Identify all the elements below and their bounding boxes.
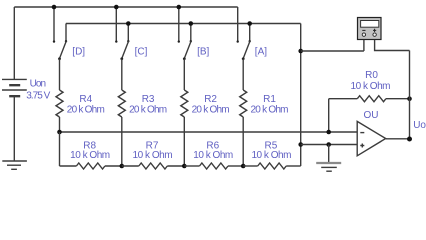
wire: switch [B] pole to R2 [183, 59, 185, 90]
node: inverting input / feedback junction [326, 130, 331, 135]
node: ladder node under R2 [182, 164, 187, 169]
svg-text:Uon: Uon [30, 79, 46, 90]
resistor R1 20 k Ohm (vertical) [240, 90, 247, 117]
resistor R4 20 k Ohm (vertical) [56, 90, 63, 117]
wire: switch [C] pole to R3 [121, 59, 123, 90]
switch [D] [53, 7, 67, 60]
wire: R1 bottom lead [242, 117, 244, 166]
svg-text:R2: R2 [204, 94, 217, 105]
node: ground rail tap for switch [B] [189, 21, 194, 26]
svg-text:R1: R1 [263, 94, 276, 105]
wire: Uon top rail [14, 6, 237, 8]
svg-text:20 k Ohm: 20 k Ohm [192, 105, 230, 116]
wire: switch [D] pole to R4 [59, 59, 61, 90]
svg-text:OU: OU [364, 110, 379, 121]
wire: meter positive lead [375, 36, 410, 51]
resistor R6 10 k Ohm (horizontal) [200, 163, 229, 169]
svg-text:R0: R0 [365, 70, 378, 81]
wire: bottom rail segment after R5 [286, 165, 301, 167]
wire: ground stem [328, 145, 330, 164]
switch [C] [115, 7, 129, 60]
node: ladder left junction (R4/R8) [57, 130, 62, 135]
wire: bottom rail segment after R6 [228, 165, 243, 167]
svg-text:10 k Ohm: 10 k Ohm [251, 150, 291, 161]
wire: bottom rail segment before R8 [60, 165, 77, 167]
svg-text:10 k Ohm: 10 k Ohm [351, 81, 391, 92]
wire: output column vertical [409, 51, 411, 140]
svg-text:3.75 V: 3.75 V [26, 91, 50, 102]
wire: bottom rail segment before R6 [184, 165, 199, 167]
svg-text:[C]: [C] [135, 47, 148, 58]
resistor R7 10 k Ohm (horizontal) [139, 163, 168, 169]
wire: bottom rail segment before R7 [122, 165, 139, 167]
node: feedback/output column at R0 right [407, 96, 412, 101]
node: meter branch junction [298, 49, 303, 54]
svg-text:R3: R3 [142, 94, 155, 105]
ground (op-amp non-inverting input) [316, 163, 341, 171]
wire: op-amp non-inverting input [301, 144, 358, 146]
node: ladder node under R3 [120, 164, 125, 169]
svg-text:20 k Ohm: 20 k Ohm [129, 105, 167, 116]
node: ladder node under R1 [241, 164, 246, 169]
wire: R4 bottom lead [59, 117, 61, 132]
svg-text:[A]: [A] [255, 47, 267, 58]
node Uo (output) [407, 137, 412, 142]
wire: left drop to bottom rail [59, 132, 61, 166]
wire: meter negative lead [301, 36, 364, 51]
resistor R8 10 k Ohm (horizontal) [76, 163, 105, 169]
svg-text:Uo: Uo [413, 120, 426, 131]
ground (battery) [2, 161, 27, 169]
svg-text:R4: R4 [79, 94, 92, 105]
node: top rail tap for switch [B] [177, 5, 182, 10]
battery Uon 3.75 V [2, 7, 27, 161]
svg-text:[D]: [D] [72, 47, 85, 58]
meter (voltmeter) [358, 18, 382, 40]
svg-text:10 k Ohm: 10 k Ohm [133, 150, 173, 161]
node: op-amp + input junction [298, 142, 303, 147]
node: ground rail tap for switch [C] [126, 21, 131, 26]
wire: feedback left drop to inverting input [328, 99, 330, 132]
svg-text:[B]: [B] [197, 47, 209, 58]
wire: bottom rail segment after R7 [167, 165, 184, 167]
wire: ladder output rail to op-amp inverting input [60, 131, 358, 133]
wire: ground net vertical (rail to R5/op-amp +) [300, 24, 302, 167]
node: ground rail tap for switch [A] [247, 21, 252, 26]
wire: bottom rail segment after R8 [105, 165, 122, 167]
wire: R2 bottom lead [183, 117, 185, 166]
wire: R3 bottom lead [121, 117, 123, 166]
switch [A] [237, 7, 251, 60]
svg-text:20 k Ohm: 20 k Ohm [67, 105, 105, 116]
wire: op-amp output [386, 138, 410, 140]
resistor R2 20 k Ohm (vertical) [181, 90, 188, 117]
svg-text:10 k Ohm: 10 k Ohm [70, 150, 110, 161]
wire: bottom rail segment before R5 [243, 165, 258, 167]
resistor R3 20 k Ohm (vertical) [118, 90, 125, 117]
op-amp OU [357, 121, 386, 155]
svg-text:10 k Ohm: 10 k Ohm [193, 150, 233, 161]
resistor R0 10 k Ohm (feedback) [329, 98, 358, 100]
wire: switch [A] pole to R1 [242, 59, 244, 90]
node: top rail tap for switch [C] [114, 5, 119, 10]
node: ground stem junction [326, 142, 331, 147]
switch [B] [178, 7, 192, 60]
resistor R5 10 k Ohm (horizontal) [258, 163, 287, 169]
svg-text:20 k Ohm: 20 k Ohm [251, 105, 289, 116]
node: top rail tap for switch [D] [52, 5, 57, 10]
wire: ground rail [66, 23, 301, 25]
